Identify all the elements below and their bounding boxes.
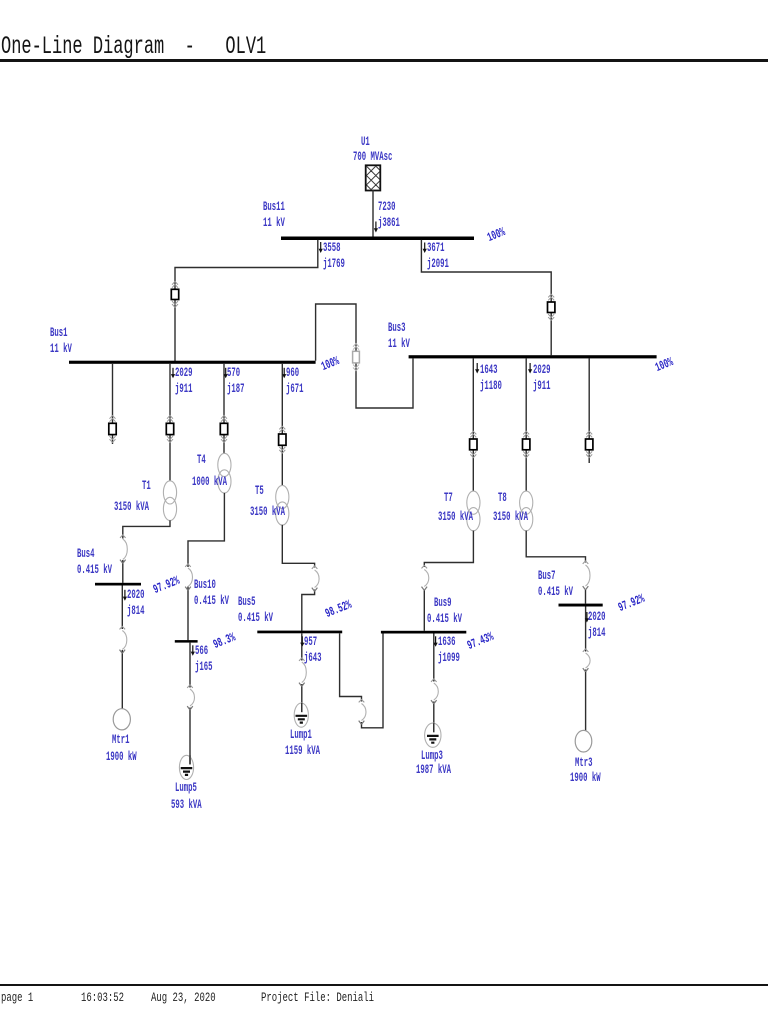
- label Bus11 11 kV: [263, 199, 285, 231]
- wire Bus3 to T7: [472, 358, 474, 491]
- label T7 3150 kVA: [438, 509, 473, 525]
- wire Bus1 to T5: [281, 363, 283, 486]
- label T4 1000 kVA: [192, 474, 227, 490]
- label Lump5 593 kVA: [171, 797, 202, 813]
- wire Bus9 to Lump3 via cable: [433, 634, 435, 733]
- footer page number: [1, 991, 33, 1004]
- label Bus5 0.415 kV: [238, 594, 273, 626]
- bus Bus10 0.415 kV: [175, 640, 198, 643]
- breaker on T5 primary: [279, 426, 286, 453]
- label 100% Bus3: [653, 354, 676, 376]
- wire Bus4 to Mtr1 via cable: [121, 586, 123, 709]
- cable on T7 secondary: [422, 565, 429, 590]
- label Bus10 0.415 kV: [194, 577, 229, 609]
- arrow flow 3671: [423, 243, 427, 254]
- label Bus7 0.415 kV: [538, 568, 573, 600]
- bus Bus4 0.415 kV: [95, 583, 141, 586]
- cable on Mtr3 feeder: [583, 649, 590, 672]
- arrow flow 2029 j911 (Bus3): [528, 363, 532, 374]
- breaker on T1 primary: [166, 416, 173, 443]
- breaker on Bus3 stub feeder: [586, 431, 593, 457]
- bus Bus7 0.415 kV: [559, 604, 603, 607]
- wire T8 to Bus7 via cable: [526, 531, 585, 604]
- label T8 3150 kVA: [493, 509, 528, 525]
- breaker on Bus11-Bus1 feeder: [171, 282, 178, 308]
- load Lump3 1987 kVA: [425, 723, 441, 747]
- label Lump3: [421, 748, 443, 764]
- label Mtr3 1900 kW: [570, 770, 601, 786]
- label Lump1: [290, 727, 312, 743]
- label 98.52% Bus5: [323, 597, 354, 622]
- label T7: [444, 490, 453, 506]
- transformer T1 3150 kVA: [163, 481, 176, 521]
- breaker on Bus11-Bus3 feeder: [548, 294, 555, 320]
- bus Bus9 0.415 kV: [381, 631, 466, 634]
- bus Bus1 11 kV: [69, 361, 316, 364]
- arrow flow j3861: [374, 222, 378, 233]
- label 3671 j2091: [427, 240, 449, 272]
- label Mtr1: [112, 732, 129, 748]
- label Bus9 0.415 kV: [427, 611, 462, 627]
- arrow flow 2020 j814 (Bus7): [585, 612, 589, 623]
- cable on T4 secondary: [185, 564, 192, 591]
- cable on Bus5-Bus9 tie: [359, 699, 366, 724]
- cable on Lump3 feeder: [431, 679, 438, 704]
- wire Bus1 to T1: [169, 363, 171, 481]
- tie line Bus1 to Bus3 with open breaker: [316, 304, 413, 408]
- arrow flow 1643 j1180: [475, 363, 479, 374]
- cable on T5 secondary: [312, 566, 319, 592]
- label 700 MVAsc: [353, 149, 392, 165]
- cable on Mtr1 feeder: [120, 626, 127, 653]
- label Bus1 11 kV: [50, 325, 72, 357]
- label 957 j643: [304, 634, 321, 666]
- wire Bus3 to T8: [525, 358, 527, 491]
- label Bus9: [434, 595, 451, 611]
- bus Bus3 11 kV: [409, 355, 657, 358]
- cable on Lump1 feeder: [299, 658, 306, 687]
- footer separator rule: [0, 984, 768, 986]
- utility source U1 symbol (crosshatched box): [296, 165, 437, 190]
- wire T1 to Bus4 via cable: [123, 520, 170, 583]
- arrow flow 1636 j1099: [434, 636, 438, 647]
- tie line Bus5 to Bus9 via cable: [340, 633, 383, 728]
- label T1 3150 kVA: [114, 499, 149, 515]
- label T4: [197, 452, 206, 468]
- arrow flow 2029 j911: [171, 368, 175, 379]
- load Lump5 593 kVA: [179, 755, 193, 779]
- label Mtr1 1900 kW: [106, 749, 137, 765]
- bus Bus5 0.415 kV: [257, 631, 342, 634]
- label T1: [142, 478, 151, 494]
- label 97.92% Bus7: [616, 591, 647, 616]
- label 2029 j911 Bus3: [533, 362, 550, 394]
- arrow flow 3558: [319, 242, 323, 253]
- label 960 j671: [286, 365, 303, 397]
- label 100% Bus11: [485, 224, 508, 246]
- motor Mtr1 1900 kW: [113, 709, 130, 730]
- label 570 j187: [227, 365, 244, 397]
- label 566 j165: [195, 643, 212, 675]
- footer time: [81, 991, 124, 1004]
- wire Bus5 to Lump1 via cable: [301, 633, 303, 712]
- arrow flow 957 j643: [300, 636, 304, 647]
- wire T7 to Bus9 via cable: [424, 531, 473, 631]
- label 2029 j911 Bus1: [175, 365, 192, 397]
- wire Bus11 to breaker to Bus1 (left feeder): [175, 240, 318, 361]
- transformer T7 3150 kVA: [467, 491, 480, 531]
- label 97.43% Bus9: [465, 629, 496, 654]
- label 2020 j814 Bus7: [588, 609, 605, 641]
- footer project file: [261, 991, 374, 1004]
- label Bus3 11 kV: [388, 320, 410, 352]
- title underline rule: [0, 59, 768, 62]
- cable on Lump5 feeder: [187, 685, 194, 710]
- breaker on T8 primary: [523, 431, 530, 457]
- label 2020 j814 Bus4: [127, 587, 144, 619]
- label T5: [255, 483, 264, 499]
- label 98.3% Bus10: [211, 629, 238, 652]
- breaker on T7 primary: [470, 431, 477, 457]
- load Lump1 1159 kVA: [294, 703, 308, 727]
- open tie breaker (gray): [353, 344, 360, 371]
- cable on T8 secondary: [583, 561, 590, 590]
- label 1636 j1099: [438, 634, 460, 666]
- label 1643 j1180: [480, 362, 502, 394]
- label Lump1 1159 kVA: [285, 743, 320, 759]
- label Lump3 1987 kVA: [416, 762, 451, 778]
- label 3558 j1769: [323, 240, 345, 272]
- label Mtr3: [575, 755, 592, 771]
- wire Bus1 stub feeder with breaker: [112, 363, 114, 444]
- arrow flow 566 j165: [191, 645, 195, 656]
- label 7230 j3861: [378, 199, 400, 231]
- footer date: [151, 991, 216, 1004]
- wire T4 to Bus10 via cable: [188, 493, 224, 640]
- label U1: [361, 134, 370, 150]
- wire Bus11 to breaker to Bus3 (right feeder): [421, 240, 551, 355]
- label T5 3150 kVA: [250, 504, 285, 520]
- label 97.92% Bus4: [151, 573, 182, 598]
- wire Bus3 stub feeder with breaker: [588, 358, 590, 463]
- wire T5 to Bus5 via cable: [282, 525, 314, 631]
- label 100% Bus1: [319, 353, 342, 375]
- transformer T4 1000 kVA: [218, 453, 231, 493]
- wire Bus1 to T4: [223, 363, 225, 454]
- transformer T5 3150 kVA: [276, 485, 289, 525]
- wire Bus7 to Mtr3 via cable: [585, 607, 587, 731]
- label Lump5: [175, 780, 197, 796]
- breaker on T4 primary: [220, 416, 227, 443]
- wire Bus10 to Lump5 via cable: [189, 643, 191, 765]
- breaker on Bus1 stub feeder: [109, 416, 116, 443]
- transformer T8 3150 kVA: [520, 491, 533, 531]
- title One-Line Diagram - OLV1: [1, 34, 266, 59]
- arrow flow 2020 j814 (Bus4): [123, 590, 127, 601]
- label T8: [498, 490, 507, 506]
- label Bus4 0.415 kV: [77, 546, 112, 578]
- wire U1 to Bus11: [372, 190, 374, 237]
- bus Bus11 11 kV: [281, 237, 474, 241]
- arrow flow 960 j671: [282, 368, 286, 379]
- cable on T1 secondary: [120, 535, 127, 564]
- arrow flow 570 j187: [224, 368, 228, 379]
- motor Mtr3 1900 kW: [575, 730, 592, 752]
